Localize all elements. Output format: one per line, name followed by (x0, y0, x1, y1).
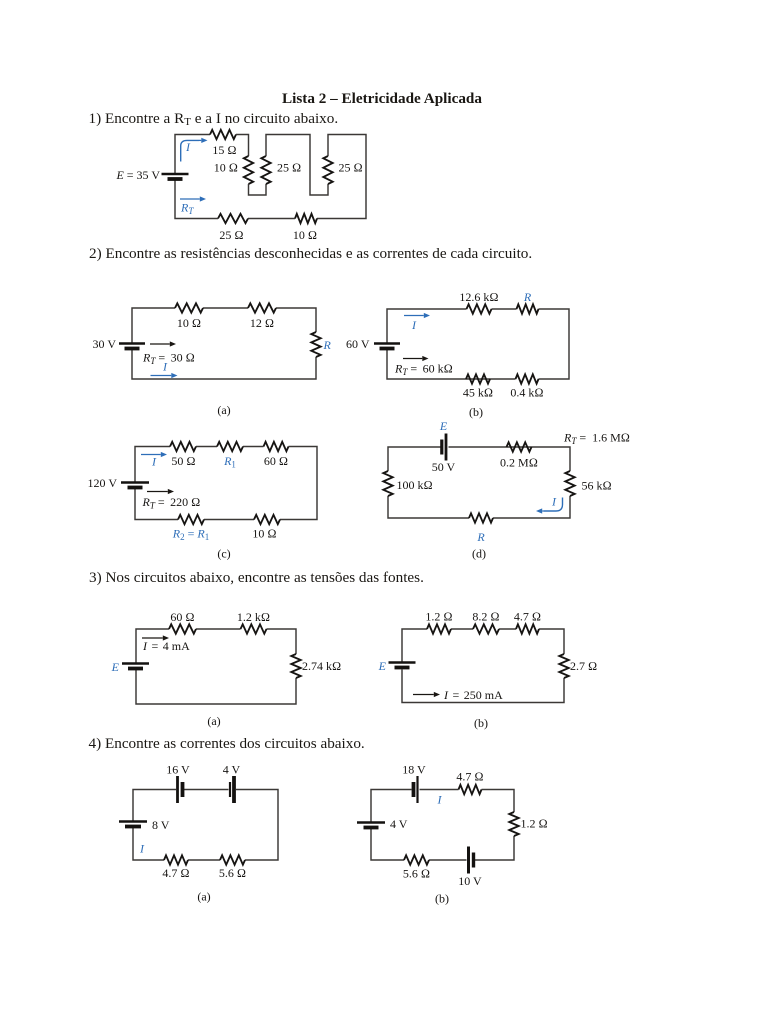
wire: outer loop (371, 790, 514, 861)
svg-text:100 kΩ: 100 kΩ (397, 478, 433, 492)
wire: outer loop (387, 309, 569, 379)
question 4 text (89, 735, 365, 753)
resistor 60 ohm (169, 624, 196, 633)
svg-text:E = 35 V: E = 35 V (115, 168, 160, 182)
wire: outer loop (132, 308, 316, 379)
svg-text:50 V: 50 V (432, 460, 456, 474)
svg-text:I: I (437, 793, 443, 807)
wire: 15-ohm resistor to corner, down to 10-ohm resistor (236, 135, 249, 157)
resistor 10 ohm (bottom horizontal) (295, 214, 317, 223)
svg-text:16 V: 16 V (166, 763, 190, 777)
battery 120 V (121, 481, 149, 484)
resistor 4.7 ohm (516, 624, 539, 633)
svg-text:(a): (a) (217, 403, 230, 417)
battery 18 V (top) (416, 776, 418, 803)
svg-text:E: E (378, 659, 387, 673)
battery E (389, 661, 416, 664)
current I arrow (black) (142, 637, 163, 639)
svg-text:25 Ω: 25 Ω (219, 228, 243, 242)
circuit 2b (346, 290, 569, 419)
svg-text:12 Ω: 12 Ω (250, 316, 274, 330)
svg-text:18 V: 18 V (402, 763, 426, 777)
svg-text:I: I (411, 318, 417, 332)
current I arrow (blue, elbow) (544, 498, 563, 512)
resistor 10 ohm (vertical) (244, 156, 253, 184)
circuit 3b (378, 610, 598, 731)
svg-text:(c): (c) (217, 547, 230, 561)
resistor 56 kohm (right, vertical) (565, 471, 574, 496)
resistor 12 ohm (248, 303, 276, 312)
resistor 2.74 kohm (right, vertical) (291, 654, 300, 678)
wire: outer loop (135, 447, 317, 520)
svg-text:0.2 MΩ: 0.2 MΩ (500, 456, 538, 470)
resistor 1.2 ohm (427, 624, 451, 633)
current I arrow (blue) (151, 375, 172, 377)
svg-text:E: E (111, 660, 120, 674)
svg-text:RT = 30 Ω: RT = 30 Ω (142, 351, 195, 367)
resistor 0.2 Mohm (top) (507, 442, 532, 451)
resistor 4.7 ohm (top) (459, 785, 482, 794)
svg-text:10 Ω: 10 Ω (252, 527, 276, 541)
resistor 1.2 kohm (241, 624, 267, 633)
svg-text:I: I (551, 495, 557, 509)
svg-text:RT: RT (180, 201, 194, 217)
svg-text:2.7 Ω: 2.7 Ω (570, 659, 597, 673)
circuit 2d (383, 419, 630, 561)
svg-text:10 Ω: 10 Ω (177, 316, 201, 330)
svg-text:R2 = R1: R2 = R1 (172, 527, 209, 543)
svg-text:60 V: 60 V (346, 337, 370, 351)
current I arrow (blue) (404, 315, 424, 317)
svg-text:4.7 Ω: 4.7 Ω (456, 770, 483, 784)
resistor 8.2 ohm (473, 624, 499, 633)
svg-text:45 kΩ: 45 kΩ (463, 386, 493, 400)
svg-text:8.2 Ω: 8.2 Ω (472, 610, 499, 624)
wire: outer loop (133, 790, 278, 861)
svg-text:5.6 Ω: 5.6 Ω (219, 866, 246, 880)
svg-text:56 kΩ: 56 kΩ (582, 479, 612, 493)
svg-text:120 V: 120 V (88, 476, 118, 490)
circuit 4a (119, 763, 278, 904)
resistor 25 ohm (first vertical) (261, 156, 270, 184)
svg-text:(a): (a) (197, 890, 210, 904)
wire: bottom wire to battery bottom (175, 179, 218, 219)
resistor 15 ohm (top left, horizontal) (210, 130, 236, 139)
battery 16 V (top) (176, 776, 179, 803)
svg-text:R: R (323, 338, 332, 352)
svg-text:R: R (523, 290, 532, 304)
svg-text:4.7 Ω: 4.7 Ω (162, 866, 189, 880)
title: Lista 2 - Eletricidade Aplicada (282, 90, 482, 108)
resistor 5.6 ohm (bottom) (404, 855, 429, 864)
circuit 1: series-parallel network for question 1 (115, 130, 366, 242)
question 2 text (89, 245, 532, 263)
wire: second top bridge and right edge down to bottom wire (317, 135, 366, 219)
current I arrow (blue) (141, 454, 161, 456)
svg-text:2.74 kΩ: 2.74 kΩ (302, 659, 341, 673)
svg-text:I: I (151, 455, 157, 469)
resistor 50 ohm (170, 442, 196, 451)
circuit 3a (111, 610, 342, 728)
svg-text:50 Ω: 50 Ω (171, 454, 195, 468)
svg-text:30 V: 30 V (93, 337, 117, 351)
svg-text:25 Ω: 25 Ω (277, 161, 301, 175)
svg-text:1.2 kΩ: 1.2 kΩ (237, 610, 270, 624)
RT arrow (black) (403, 358, 422, 360)
svg-text:E: E (439, 419, 448, 433)
svg-text:10 V: 10 V (458, 874, 482, 888)
resistor 10 ohm (bottom) (254, 515, 280, 524)
wire: outer loop (388, 447, 570, 518)
resistor R (top) (517, 304, 539, 313)
wire: between bottom resistors (248, 218, 295, 220)
resistor 1.2 ohm (right, vertical) (509, 812, 518, 836)
battery E (122, 662, 149, 665)
circuit 4b (357, 763, 548, 906)
RT arrow (blue) (180, 198, 200, 200)
svg-text:I = 4 mA: I = 4 mA (142, 639, 190, 653)
resistor 0.4 kohm (bottom) (516, 374, 539, 383)
svg-text:10 Ω: 10 Ω (293, 228, 317, 242)
resistor R (bottom) (469, 513, 493, 522)
svg-text:1.2 Ω: 1.2 Ω (521, 817, 548, 831)
battery 30 V (119, 342, 145, 345)
svg-text:4.7 Ω: 4.7 Ω (514, 610, 541, 624)
question 3 text (89, 569, 424, 587)
resistor 25 ohm (second vertical) (323, 156, 332, 184)
resistor R (right, vertical) (311, 332, 320, 357)
svg-text:I = 250 mA: I = 250 mA (443, 688, 503, 702)
battery 8 V (left) (119, 820, 147, 823)
svg-text:(b): (b) (474, 716, 488, 730)
svg-text:60 Ω: 60 Ω (170, 610, 194, 624)
svg-text:8 V: 8 V (152, 818, 170, 832)
svg-text:12.6 kΩ: 12.6 kΩ (459, 290, 498, 304)
svg-text:RT = 60 kΩ: RT = 60 kΩ (394, 362, 453, 378)
wire: outer loop (136, 629, 296, 704)
battery 10 V (bottom) (467, 847, 470, 874)
wire: battery top to top-left corner and top wire to 15-ohm resistor (175, 135, 210, 175)
battery E 35V (162, 173, 189, 176)
svg-text:R1: R1 (223, 454, 236, 470)
svg-text:RT = 220 Ω: RT = 220 Ω (142, 495, 201, 511)
circuit 2a (93, 303, 332, 417)
resistor R1 (top) (217, 442, 243, 451)
resistor 2.7 ohm (right, vertical) (559, 654, 568, 678)
RT arrow (black) (150, 343, 170, 345)
resistor 4.7 ohm (bottom) (164, 855, 188, 864)
resistor 60 ohm (264, 442, 289, 451)
resistor 25 ohm (bottom horizontal) (218, 214, 248, 223)
svg-text:(b): (b) (435, 892, 449, 906)
svg-text:(a): (a) (207, 714, 220, 728)
svg-text:(d): (d) (472, 547, 486, 561)
current I arrow (black) (413, 694, 434, 696)
svg-text:4 V: 4 V (390, 817, 408, 831)
battery 4 V (left) (357, 821, 385, 824)
resistor 100 kohm (left, vertical) (383, 471, 392, 496)
resistor 10 ohm (175, 303, 203, 312)
RT arrow (black) (147, 491, 168, 493)
resistor R2 (bottom) (178, 515, 204, 524)
resistor 45 kohm (bottom) (466, 374, 490, 383)
svg-text:5.6 Ω: 5.6 Ω (403, 867, 430, 881)
svg-text:RT = 1.6 MΩ: RT = 1.6 MΩ (563, 431, 630, 447)
svg-text:0.4 kΩ: 0.4 kΩ (510, 386, 543, 400)
wire: U bottom connecting 10-ohm and first 25-ohm (249, 184, 267, 195)
wire: first top bridge and drop to second U (266, 135, 328, 196)
question 1 text (89, 110, 339, 128)
resistor 5.6 ohm (bottom) (220, 855, 245, 864)
svg-text:I: I (139, 842, 145, 856)
wire: outer loop (402, 629, 564, 703)
current I arrow (blue hook) (181, 140, 199, 161)
svg-text:1.2 Ω: 1.2 Ω (425, 610, 452, 624)
svg-text:60 Ω: 60 Ω (264, 454, 288, 468)
svg-text:25 Ω: 25 Ω (339, 161, 363, 175)
svg-text:(b): (b) (469, 405, 483, 419)
svg-text:R: R (476, 530, 485, 544)
battery 4 V (top) (232, 776, 236, 803)
battery E 50 V (top, horizontal) (445, 434, 448, 461)
svg-text:15 Ω: 15 Ω (212, 143, 236, 157)
battery 60 V (374, 342, 400, 345)
svg-text:10 Ω: 10 Ω (214, 161, 238, 175)
resistor 12.6 kohm (467, 304, 492, 313)
svg-text:I: I (185, 140, 191, 154)
svg-text:4 V: 4 V (223, 763, 241, 777)
circuit 2c (88, 442, 317, 561)
